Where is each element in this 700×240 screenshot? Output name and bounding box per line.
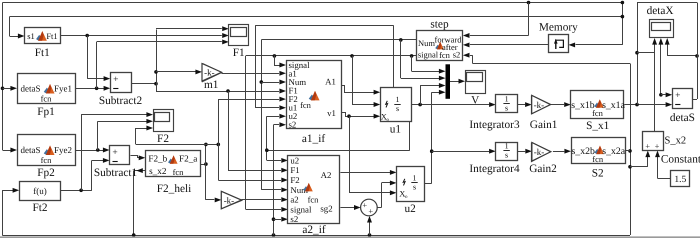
svg-text:V: V xyxy=(471,95,480,107)
block a2_if xyxy=(288,156,340,224)
svg-text:s: s xyxy=(505,103,508,112)
wire: left vertical feeding Fp1 and Fp2 xyxy=(2,3,4,151)
svg-text:signal: signal xyxy=(418,50,439,60)
wire: S2 s_x2a output xyxy=(625,150,631,152)
wire: F2_heli F2_a output net xyxy=(200,164,206,166)
wire: signal down to u1 reset input xyxy=(352,56,354,105)
svg-text:-k-: -k- xyxy=(224,195,235,205)
wire: down to Ft1 s1 input xyxy=(9,17,11,36)
gain Gain2 xyxy=(532,143,551,162)
svg-text:+: + xyxy=(362,200,367,210)
wire: Fp2 Fye2 output to Subtract1 + xyxy=(75,150,104,152)
svg-text:Ft1: Ft1 xyxy=(46,31,57,41)
svg-text:Subtract1: Subtract1 xyxy=(94,167,137,179)
wire: m1 output to a1_if a1 input xyxy=(222,73,280,75)
svg-text:1: 1 xyxy=(396,95,400,104)
svg-text:-k-: -k- xyxy=(534,100,545,110)
svg-text:a2: a2 xyxy=(290,195,298,205)
svg-text:sg2: sg2 xyxy=(320,204,332,214)
svg-text:+: + xyxy=(675,91,680,101)
block Fp1 xyxy=(18,74,76,104)
svg-text:-k-: -k- xyxy=(534,147,545,157)
wire: S2 net to S_x2 sum left input xyxy=(630,166,648,168)
svg-text:Subtract2: Subtract2 xyxy=(99,95,143,107)
wire into Fp1 detaS input xyxy=(3,88,13,90)
wire: signal net from step signal output xyxy=(246,55,417,57)
svg-text:a2_if: a2_if xyxy=(302,224,325,236)
svg-text:detaS: detaS xyxy=(21,84,41,94)
svg-text:s: s xyxy=(413,183,416,192)
svg-text:s2: s2 xyxy=(290,214,298,224)
svg-text:F2: F2 xyxy=(157,133,169,145)
svg-text:s1: s1 xyxy=(27,31,35,41)
scope detaX xyxy=(650,20,674,38)
svg-text:detaS: detaS xyxy=(670,112,695,124)
mux bar xyxy=(446,64,451,99)
wire: u1 loop left down to a1_if u1 input xyxy=(255,26,257,108)
block Integrator4 xyxy=(496,143,518,161)
block step xyxy=(417,31,463,61)
svg-text:1.5: 1.5 xyxy=(674,175,686,185)
svg-text:S_x2: S_x2 xyxy=(665,136,687,147)
wire: u1 output branch up to mux input 3 xyxy=(420,86,422,105)
wire: detaX input 1 / S_x2 output riser xyxy=(654,40,656,131)
wire: u1 state loop rectangle xyxy=(255,25,394,27)
block u2 integrator xyxy=(397,167,425,202)
wire: u2 riser to Integrator4 xyxy=(432,151,489,153)
wire: Fp1 Fye1 output to Subtract2 - xyxy=(75,88,105,90)
block detaS subtract xyxy=(673,89,693,109)
svg-text:signal: signal xyxy=(290,204,312,214)
svg-text:a1_if: a1_if xyxy=(302,133,325,145)
wire: u2 output riser xyxy=(431,92,433,183)
wire: a2_if A2 output to u2 input xyxy=(340,172,390,174)
wire: top net from detaS output along top edge xyxy=(3,2,623,4)
svg-text:Fye1: Fye1 xyxy=(54,84,72,94)
svg-text:Integrator3: Integrator3 xyxy=(469,119,520,131)
wire: Memory output to step after input xyxy=(470,44,548,46)
wire: s_x2 port of F2_heli to bottom bus xyxy=(133,171,135,235)
wire: bottom tap up into sum junction xyxy=(369,217,371,235)
scope F2 xyxy=(154,110,174,132)
svg-text:s2: s2 xyxy=(289,120,297,130)
wire: signal down to a2_if signal input xyxy=(245,56,247,210)
wire: F2 branch to a2_if F2 input xyxy=(218,180,281,182)
svg-text:Gain1: Gain1 xyxy=(530,119,558,131)
scope V xyxy=(466,71,486,94)
wire: right edge riser from detaS output xyxy=(697,3,699,100)
block u1 integrator xyxy=(381,88,412,122)
svg-text:+: + xyxy=(368,206,373,216)
gain m1 xyxy=(203,64,222,82)
wire: Num down to a1_if and a2_if Num inputs xyxy=(261,40,263,190)
wire: Ft2 f(u) output net xyxy=(60,190,92,192)
svg-text:Gain2: Gain2 xyxy=(529,163,557,175)
wire: jog into F2 scope input 3 xyxy=(135,128,137,144)
svg-text:Ft1: Ft1 xyxy=(35,47,50,59)
block Memory xyxy=(549,35,569,53)
node junction to Fp1 xyxy=(1,87,5,91)
block Fp2 xyxy=(18,135,76,166)
wire: branch down to Subtract2 + xyxy=(87,36,89,79)
svg-text:f(u): f(u) xyxy=(33,186,47,196)
wire: branch up to Subtract1 - xyxy=(91,160,93,190)
svg-text:v1: v1 xyxy=(327,108,336,118)
svg-text:Constant: Constant xyxy=(661,153,700,165)
block Integrator3 xyxy=(496,95,518,113)
wire: u2 input feed vertical to a1_if u2 and a2_if u2 inputs xyxy=(266,116,268,160)
wire: Fye2 branch up to F2 scope input 2 xyxy=(97,121,99,150)
svg-text:fcn: fcn xyxy=(173,167,185,177)
svg-text:A1: A1 xyxy=(325,77,336,87)
node branch to m1 xyxy=(154,70,158,74)
wire: Gain1 to S_x1 xyxy=(551,104,565,106)
wire: S_x1 output to detaS minus input xyxy=(625,104,666,106)
node on Ft1 output xyxy=(85,34,89,38)
svg-text:s: s xyxy=(396,104,399,113)
wire: vertical riser from Subtract2 output xyxy=(156,30,158,92)
wire into Fp2 detaS input xyxy=(3,150,13,152)
wire: sum output up to u2 trigger input xyxy=(377,207,381,209)
wire: top line down to step forward input xyxy=(527,1,531,5)
block F2_heli xyxy=(146,151,201,177)
node bottom taps xyxy=(132,233,136,237)
node branch down to a2_if F1 xyxy=(226,89,230,93)
svg-text:fcn: fcn xyxy=(592,108,604,118)
svg-text:F1: F1 xyxy=(233,47,245,59)
svg-text:1: 1 xyxy=(505,142,509,151)
wire: a2_if sg2 output to sum xyxy=(340,207,354,209)
wire: F2 distribution line xyxy=(136,144,218,146)
wire: -k- gain output to a2_if a2 input xyxy=(241,199,281,201)
wire: bottom-left up to Ft2 input xyxy=(2,190,4,235)
wire: Integrator4 to Gain2 xyxy=(518,151,526,153)
wire: a1_if v1 output to u1 x0 and u2 x0 xyxy=(342,113,375,117)
sum circle sg2 plus feedback xyxy=(361,199,378,216)
svg-text:Fp1: Fp1 xyxy=(37,106,55,118)
svg-text:1: 1 xyxy=(505,94,509,103)
wire: signal down to mux input 1 xyxy=(411,56,413,71)
svg-text:F2: F2 xyxy=(290,175,299,185)
svg-text:+: + xyxy=(113,75,118,85)
block Subtract2 xyxy=(111,73,132,93)
node on Fye1 line xyxy=(95,87,99,91)
wire: branch up to F2 scope input 1 xyxy=(81,115,83,191)
wire: mux output to V scope xyxy=(450,81,459,83)
svg-text:s2: s2 xyxy=(453,50,461,60)
block S_x1 xyxy=(571,91,624,119)
wire: S_x1 net riser to top right xyxy=(637,3,639,105)
wire: detaX input 2 riser to detaS + xyxy=(660,40,662,95)
svg-text:Num: Num xyxy=(418,38,435,48)
svg-text:fcn: fcn xyxy=(41,94,53,104)
wire: Gain2 to S2 xyxy=(553,151,564,153)
wire: u2 riser to mux input 4 xyxy=(432,92,439,94)
block Ft2 xyxy=(20,182,61,201)
svg-text:F2_b: F2_b xyxy=(148,153,167,163)
wire: Subtract1 output to F2_heli F2_b input xyxy=(131,156,141,158)
block S_x2 sum xyxy=(643,132,664,151)
gain -k- for a2 xyxy=(222,192,242,209)
svg-text:Fye2: Fye2 xyxy=(54,145,72,155)
svg-text:u2: u2 xyxy=(290,155,299,165)
svg-text:F2_heli: F2_heli xyxy=(157,183,192,195)
svg-text:+: + xyxy=(112,148,117,158)
wire: memory feed line down to Memory input xyxy=(622,3,624,45)
gain Gain1 xyxy=(532,96,551,114)
wire: s2 riser to a1_if and a2_if s2 inputs xyxy=(273,125,275,235)
wire: bottom bus xyxy=(2,235,630,237)
svg-text:+: + xyxy=(655,141,660,151)
svg-text:1: 1 xyxy=(413,174,417,183)
svg-text:fcn: fcn xyxy=(439,50,451,60)
svg-text:fcn: fcn xyxy=(41,155,53,165)
wire: u1 lower state port line xyxy=(409,121,411,150)
wire: signal jog into a1_if signal input xyxy=(275,56,280,66)
wire: s2 net riser from S2 output to step s2 input xyxy=(630,64,632,236)
wire: Subtract2 output junction xyxy=(131,83,156,85)
wire: Constant to S_x2 right input xyxy=(658,178,671,180)
wire: u1 output line to Integrator3 xyxy=(411,104,489,106)
wire: F2_a down to -k- gain input xyxy=(205,164,207,200)
wire: Num riser down to mux input 2 xyxy=(400,40,402,78)
block Ft1 xyxy=(25,28,61,44)
wire: detaX input 3 from right riser xyxy=(667,40,669,56)
wire: top right segment xyxy=(637,2,697,4)
wire: F1 net to a1_if F1 input xyxy=(156,91,279,93)
scope F1 xyxy=(229,25,249,46)
wire: Ft1 output to F1 scope input 2 xyxy=(61,35,222,37)
svg-text:S_x1: S_x1 xyxy=(586,120,609,132)
svg-text:fcn: fcn xyxy=(592,154,604,164)
wire: branch to detaX input 1 xyxy=(637,52,655,54)
svg-text:S2: S2 xyxy=(592,168,604,180)
wire: Fye1 branch up and right to F1 scope input 3 xyxy=(96,42,98,88)
svg-text:Integrator4: Integrator4 xyxy=(469,163,520,175)
svg-text:-k-: -k- xyxy=(204,67,215,77)
wire: F2 branch to a1_if F2 input xyxy=(218,99,220,180)
wire: step Num output line xyxy=(261,39,416,41)
svg-text:fcn: fcn xyxy=(300,100,312,110)
svg-text:u2: u2 xyxy=(404,203,416,215)
wire to m1 gain input xyxy=(156,71,197,73)
node on Fye2 line xyxy=(96,148,100,152)
block a1_if xyxy=(287,61,342,129)
svg-text:s_x2a: s_x2a xyxy=(602,146,626,157)
svg-text:s: s xyxy=(505,151,508,160)
wire: up to F1 scope input 1 xyxy=(156,28,222,30)
wire: memory/Ft1 feedback line xyxy=(10,16,623,18)
wire: Integrator3 to Gain1 xyxy=(518,104,525,106)
wire: F2_a up to distribution line xyxy=(205,144,207,164)
svg-text:detaX: detaX xyxy=(647,5,674,17)
svg-text:F1: F1 xyxy=(290,165,299,175)
window bottom border xyxy=(0,236,700,238)
svg-text:step: step xyxy=(430,19,449,31)
svg-text:Memory: Memory xyxy=(539,22,578,34)
block Subtract1 xyxy=(110,146,130,165)
svg-text:Ft2: Ft2 xyxy=(32,202,47,214)
svg-text:s_x1a: s_x1a xyxy=(602,100,626,111)
wire: a1_if A1 output to u1 input xyxy=(342,86,375,93)
svg-text:F2_a: F2_a xyxy=(179,153,197,163)
svg-text:fcn: fcn xyxy=(308,195,320,205)
block S2 xyxy=(572,138,626,164)
svg-text:Fp2: Fp2 xyxy=(37,167,55,179)
svg-text:detaS: detaS xyxy=(21,145,41,155)
wire: u2 output jog xyxy=(424,183,432,185)
svg-text:A2: A2 xyxy=(321,170,332,180)
svg-text:s_x2: s_x2 xyxy=(149,166,167,176)
block Constant xyxy=(671,171,690,187)
svg-text:m1: m1 xyxy=(204,79,218,91)
svg-text:+: + xyxy=(645,141,650,151)
svg-text:u1: u1 xyxy=(390,123,401,135)
